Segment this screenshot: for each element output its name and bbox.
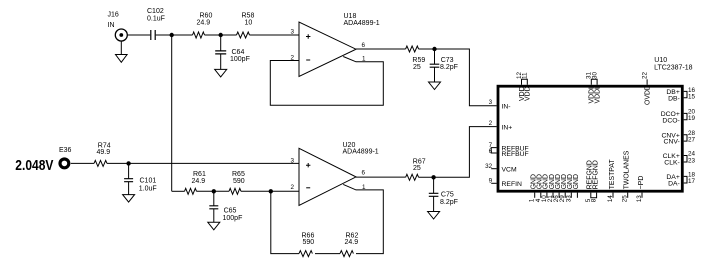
svg-text:25: 25 <box>413 165 421 172</box>
resistor R65 590 <box>229 171 245 194</box>
svg-text:~PD: ~PD <box>638 176 645 190</box>
svg-text:GND: GND <box>573 174 580 189</box>
wire R60 to R58 <box>205 34 237 36</box>
ground at C101 <box>123 195 135 203</box>
wire U20 output to R67 <box>356 176 406 178</box>
svg-text:2.048V: 2.048V <box>15 157 53 173</box>
svg-text:CLK-: CLK- <box>664 160 680 167</box>
svg-text:17: 17 <box>688 178 696 185</box>
capacitor C64 100pF <box>215 35 250 69</box>
svg-text:R60: R60 <box>200 13 213 20</box>
svg-text:22: 22 <box>642 71 649 79</box>
svg-text:R58: R58 <box>242 13 255 20</box>
svg-text:590: 590 <box>303 239 315 246</box>
svg-text:11: 11 <box>522 72 529 79</box>
U10 pin 5 REFGND <box>591 193 597 198</box>
capacitor C65 100pF <box>209 191 242 222</box>
svg-text:15: 15 <box>688 93 696 100</box>
U10 pin 20 DCO+ <box>684 113 687 119</box>
wire R59 to IC IN- <box>419 49 497 106</box>
wire R67 to IC IN+ <box>419 127 497 178</box>
resistor R74 49.9 <box>94 142 111 166</box>
svg-text:8.2pF: 8.2pF <box>440 199 458 206</box>
svg-text:VDD: VDD <box>525 86 532 101</box>
resistor R60 24.9 <box>193 13 213 39</box>
U10 pin 31 VDDL <box>591 79 597 85</box>
svg-text:CNV-: CNV- <box>664 139 680 146</box>
U10 pin 14 TESTPAT <box>612 193 614 198</box>
wire U18 output to R59 <box>356 48 406 50</box>
wire C102 to R60 <box>156 34 193 36</box>
svg-text:C101: C101 <box>140 177 157 184</box>
U10 pin 26 GND <box>558 193 560 198</box>
svg-text:10: 10 <box>245 20 253 27</box>
svg-text:2: 2 <box>290 184 294 191</box>
svg-text:3: 3 <box>290 157 294 164</box>
svg-text:C102: C102 <box>147 8 164 15</box>
svg-text:8: 8 <box>591 198 598 202</box>
svg-text:100pF: 100pF <box>230 56 250 63</box>
svg-text:ADA4899-1: ADA4899-1 <box>343 149 379 156</box>
capacitor C101 1.0uF <box>124 163 157 194</box>
wire R61 rail <box>172 190 185 192</box>
svg-text:19: 19 <box>688 115 696 122</box>
svg-text:27: 27 <box>688 137 696 144</box>
svg-text:14: 14 <box>607 195 614 203</box>
U18 feedback loop wire pin1 to pin2 <box>270 57 383 106</box>
wire R65 to U20 pin2 <box>241 190 299 192</box>
svg-text:100pF: 100pF <box>223 215 243 222</box>
svg-text:3: 3 <box>489 99 493 106</box>
svg-text:24: 24 <box>688 151 696 158</box>
U10 pin 28 CNV+ <box>684 135 687 141</box>
ground at C73 <box>429 82 441 90</box>
svg-text:OVDD: OVDD <box>645 85 652 105</box>
svg-text:C73: C73 <box>441 57 454 64</box>
node feedback/pin2 <box>269 189 273 193</box>
capacitor C75 8.2pF <box>429 177 458 211</box>
svg-text:0.1uF: 0.1uF <box>147 16 165 23</box>
node R60/C64 <box>219 33 223 37</box>
U10 pin 16 DB+ <box>684 91 687 97</box>
svg-text:6: 6 <box>489 148 493 155</box>
svg-text:E36: E36 <box>59 147 72 154</box>
U10 pin 4 GND <box>540 193 542 198</box>
svg-text:DCO-: DCO- <box>662 117 679 124</box>
op-amp U20 ADA4899-1 <box>299 142 379 206</box>
U10 pin 25 TWOLANES <box>627 193 629 198</box>
svg-text:33: 33 <box>565 195 572 203</box>
svg-text:C75: C75 <box>441 191 454 198</box>
svg-text:8.2pF: 8.2pF <box>440 64 458 71</box>
svg-text:6: 6 <box>362 42 366 49</box>
svg-text:590: 590 <box>233 178 245 185</box>
capacitor C102 0.1uF <box>147 8 165 40</box>
svg-text:2: 2 <box>489 120 493 127</box>
svg-text:ADA4899-1: ADA4899-1 <box>344 20 380 27</box>
U10 pin 29 GND <box>564 193 566 198</box>
U10 GND pin 8th <box>576 193 578 198</box>
svg-text:IN: IN <box>108 22 115 29</box>
svg-text:DB-: DB- <box>668 95 680 102</box>
node R59/C73 <box>432 47 436 51</box>
resistor R67 25 <box>406 158 426 180</box>
svg-text:TWOLANES: TWOLANES <box>624 150 631 189</box>
node R74/C101 <box>126 161 130 165</box>
node E36 2.048V <box>15 147 71 173</box>
U10 pin 24 CLK+ <box>684 156 687 163</box>
U10 pin 13 ~PD <box>641 193 643 198</box>
svg-text:25: 25 <box>413 64 421 71</box>
svg-text:DA-: DA- <box>668 181 680 188</box>
U10 pin 33 GND <box>570 193 572 198</box>
node R67/C75 <box>431 175 435 179</box>
svg-text:REFGND: REFGND <box>592 160 599 189</box>
svg-text:IN+: IN+ <box>502 124 513 131</box>
U10 pin 1 GND <box>534 193 536 198</box>
wire R74 to U20 pin3 <box>107 162 299 164</box>
wire node down to R61 rail <box>171 35 173 191</box>
svg-text:IN-: IN- <box>502 104 511 111</box>
ground at J16 <box>116 41 128 62</box>
svg-text:23: 23 <box>688 158 696 165</box>
svg-text:REFBUF: REFBUF <box>502 151 529 158</box>
wire R61 to R65 <box>197 190 230 192</box>
svg-text:6: 6 <box>362 170 366 177</box>
U10 pin 18 DA+ <box>684 176 687 183</box>
svg-text:J16: J16 <box>108 12 119 19</box>
connector J16 <box>108 12 128 42</box>
resistor R62 24.9 <box>340 232 358 256</box>
U20 feedback loop wire <box>271 184 384 253</box>
svg-text:U10: U10 <box>654 57 667 64</box>
U10 pin 22 OVDD <box>646 79 648 85</box>
svg-text:LTC2387-18: LTC2387-18 <box>654 64 693 71</box>
wire J16 to C102 <box>127 34 150 36</box>
resistor R59 25 <box>406 46 426 71</box>
node after C102 <box>170 33 174 37</box>
wire R58 to U18 pin3 <box>250 34 300 36</box>
svg-text:49.9: 49.9 <box>97 149 111 156</box>
U10 pin 10 GND <box>546 193 548 198</box>
U10 pin 12 VDD <box>522 79 528 85</box>
ground at C65 <box>208 222 220 230</box>
svg-text:25: 25 <box>622 195 629 203</box>
svg-text:1.0uF: 1.0uF <box>139 186 157 193</box>
svg-text:24.9: 24.9 <box>345 239 359 246</box>
ground at C75 <box>428 212 440 220</box>
capacitor C73 8.2pF <box>430 49 458 82</box>
svg-text:30: 30 <box>592 71 599 79</box>
svg-text:3: 3 <box>290 29 294 36</box>
svg-text:TESTPAT: TESTPAT <box>609 159 616 190</box>
svg-text:24.9: 24.9 <box>192 178 206 185</box>
resistor R61 24.9 <box>185 171 206 194</box>
svg-text:REFIN: REFIN <box>502 181 522 188</box>
wire E36 to R74 <box>71 162 94 164</box>
svg-text:24.9: 24.9 <box>197 20 211 27</box>
resistor R66 590 <box>299 232 314 256</box>
svg-text:C65: C65 <box>224 207 237 214</box>
resistor R58 10 <box>237 13 255 39</box>
svg-text:13: 13 <box>636 195 643 203</box>
U10 pin 21 GND <box>552 193 554 198</box>
op-amp U18 ADA4899-1 <box>299 13 380 76</box>
svg-text:VCM: VCM <box>502 167 517 174</box>
node R61/C65 <box>212 189 216 193</box>
ground at C64 <box>215 69 227 77</box>
svg-text:VDDL: VDDL <box>595 85 602 104</box>
ADC U10 LTC2387-18 <box>498 57 693 191</box>
